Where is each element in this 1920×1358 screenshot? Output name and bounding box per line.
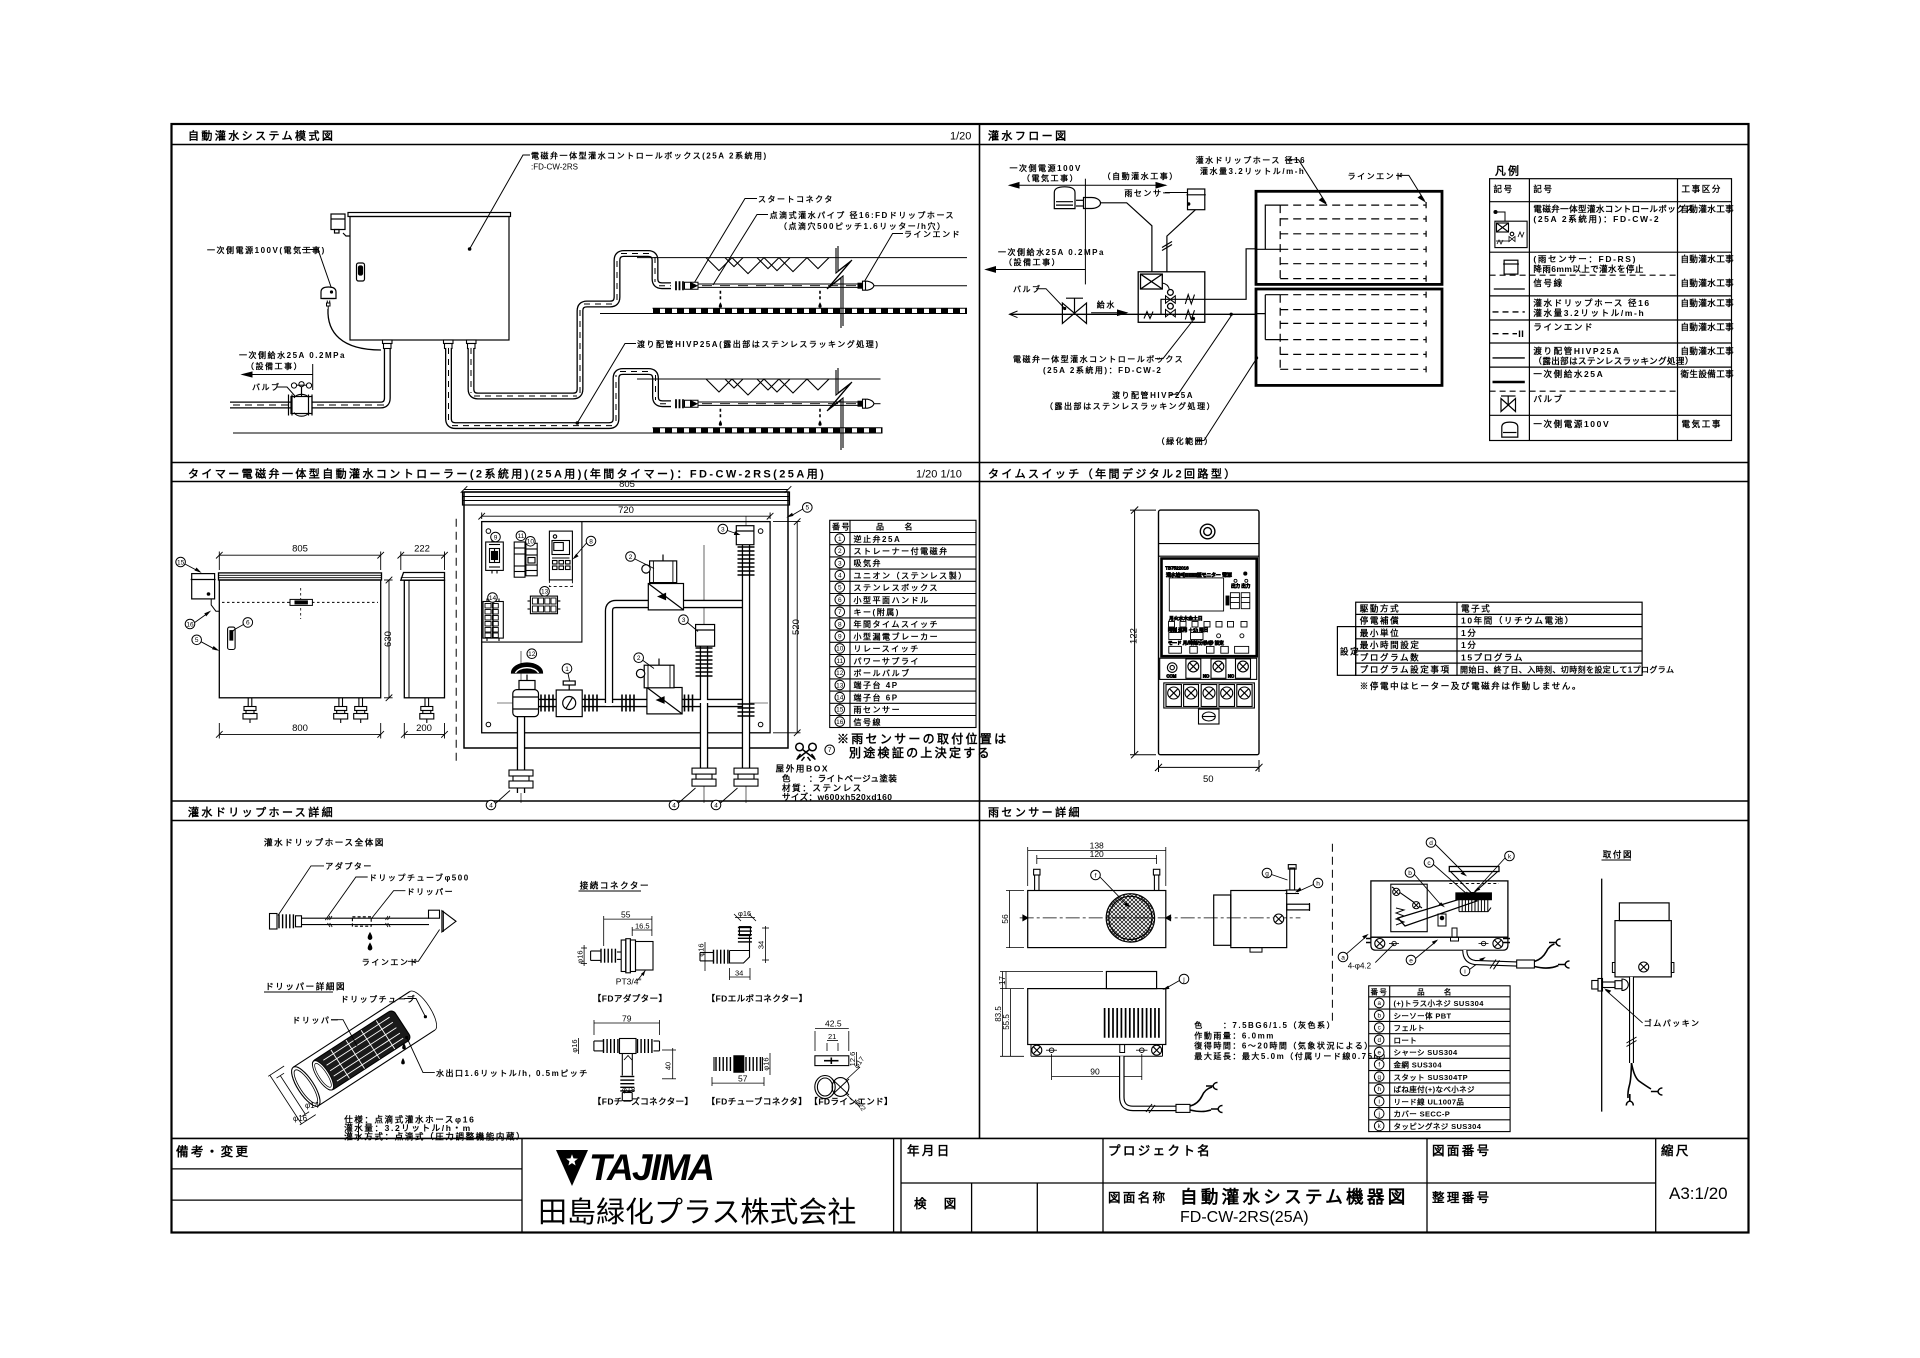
dims front: [216, 552, 393, 739]
svg-text:12: 12: [528, 651, 536, 658]
terminal row 1: [1160, 658, 1257, 679]
breaker (9): [486, 539, 504, 574]
zone 1 planting area: [637, 257, 967, 259]
svg-text:i: i: [1379, 1099, 1380, 1106]
svg-text:電磁弁一体型灌水コントロールボックス(25A 2系統用): 電磁弁一体型灌水コントロールボックス(25A 2系統用): [531, 151, 768, 161]
parts table: [1369, 986, 1510, 1132]
svg-text:122: 122: [1129, 628, 1140, 644]
thin centerlines: [497, 517, 768, 804]
signal line from plug to control box: [1101, 203, 1152, 272]
svg-text:800: 800: [292, 723, 308, 734]
svg-text:7: 7: [828, 747, 832, 754]
svg-text:灌水量3.2リットル/m-h: 灌水量3.2リットル/m-h: [1533, 308, 1645, 318]
svg-text:ラインエンド: ラインエンド: [362, 958, 419, 967]
row8 valve: [1501, 399, 1516, 412]
svg-text:給水: 給水: [1097, 300, 1116, 310]
two solenoid units: [1168, 290, 1174, 296]
svg-text:屋外用BOX: 屋外用BOX: [776, 764, 830, 774]
svg-text:1: 1: [565, 666, 569, 673]
svg-text:別途検証の上決定する: 別途検証の上決定する: [848, 745, 992, 760]
svg-text:40: 40: [664, 1062, 673, 1070]
svg-text:【FDチーズコネクター】: 【FDチーズコネクター】: [593, 1097, 694, 1107]
svg-text:(25A 2系統用)：FD-CW-2: (25A 2系統用)：FD-CW-2: [1533, 214, 1660, 224]
cable bottom view: [1122, 1056, 1176, 1108]
svg-text:品 名: 品 名: [876, 522, 914, 532]
svg-text:復得時間：6～20時間（気象状況による）: 復得時間：6～20時間（気象状況による）: [1193, 1041, 1374, 1051]
base plate: [1371, 937, 1508, 950]
svg-text:b: b: [1377, 1012, 1381, 1019]
svg-text:16: 16: [186, 621, 194, 628]
svg-text:10: 10: [527, 539, 535, 546]
svg-text:電気工事: 電気工事: [1682, 419, 1722, 429]
svg-text:7: 7: [838, 609, 842, 616]
svg-text:200: 200: [416, 723, 432, 734]
svg-text:13: 13: [836, 682, 844, 689]
svg-text:一次側電源100V: 一次側電源100V: [1010, 163, 1082, 173]
pivot: [1438, 914, 1446, 926]
row6 pipe line: [1493, 357, 1525, 359]
svg-text:（露出部はステンレスラッキング処理）: （露出部はステンレスラッキング処理）: [1045, 401, 1216, 411]
row2 rain sensor: [1504, 260, 1518, 274]
svg-text:g: g: [1377, 1074, 1381, 1081]
balloons piping: [486, 524, 740, 810]
line end: [429, 910, 440, 918]
drawing number column: [1655, 1138, 1657, 1232]
svg-text:【FDエルボコネクター】: 【FDエルボコネクター】: [707, 994, 808, 1004]
svg-text:灌水量3.2リットル/m-h: 灌水量3.2リットル/m-h: [1200, 166, 1305, 176]
left edge screws: [1366, 939, 1371, 943]
svg-text:4: 4: [838, 573, 842, 580]
svg-text:ゴムパッキン: ゴムパッキン: [1644, 1018, 1701, 1028]
svg-text:a: a: [1341, 954, 1345, 961]
svg-text:ドリップチューブ: ドリップチューブ: [341, 994, 417, 1004]
cable from base: [1465, 950, 1517, 964]
svg-text:小型平面ハンドル: 小型平面ハンドル: [853, 595, 930, 605]
svg-text:灌水ドリップホース 径16: 灌水ドリップホース 径16: [1533, 298, 1650, 308]
dims: [603, 916, 605, 946]
svg-text:e: e: [1377, 1049, 1381, 1056]
svg-text:金網 SUS304: 金網 SUS304: [1393, 1060, 1443, 1070]
device outline: [1159, 510, 1260, 755]
svg-text:信号線: 信号線: [854, 717, 883, 727]
zone 2 planting area: [637, 378, 881, 380]
svg-text:タイムスイッチ（年間デジタル2回路型）: タイムスイッチ（年間デジタル2回路型）: [988, 467, 1238, 481]
svg-text:渡り配管HIVP25A(露出部はステンレスラッキング処理): 渡り配管HIVP25A(露出部はステンレスラッキング処理): [637, 339, 880, 349]
internal branch: [1161, 249, 1256, 314]
supply pipe with valve: [230, 344, 387, 416]
panel divider vertical: [979, 124, 981, 1138]
dims: [1130, 507, 1263, 773]
svg-text:灌水ドリップホース詳細: 灌水ドリップホース詳細: [188, 805, 335, 819]
svg-text:42.5: 42.5: [825, 1019, 842, 1029]
svg-text:設定: 設定: [1340, 647, 1360, 657]
svg-text:6: 6: [246, 620, 250, 627]
svg-text:サイズ：w600xh520xd160: サイズ：w600xh520xd160: [782, 792, 892, 802]
main valve bowtie: [1062, 298, 1086, 323]
rain sensor on box: [191, 574, 220, 612]
svg-text:805: 805: [292, 544, 308, 555]
solenoid upper (2): [642, 555, 684, 610]
svg-text:接続コネクター: 接続コネクター: [580, 881, 650, 891]
hose overall: [270, 910, 457, 950]
felt: [1456, 893, 1491, 900]
svg-text:バルブ: バルブ: [252, 382, 281, 392]
svg-text:50: 50: [1203, 774, 1214, 785]
svg-text:凡例: 凡例: [1495, 164, 1521, 178]
door handle front: [228, 627, 236, 649]
svg-text:d: d: [1377, 1037, 1381, 1044]
svg-text:17: 17: [998, 976, 1007, 985]
svg-text:14: 14: [836, 695, 844, 702]
svg-text:(+)トラス小ネジ SUS304: (+)トラス小ネジ SUS304: [1394, 998, 1485, 1008]
svg-text:自動灌水工事: 自動灌水工事: [1681, 346, 1735, 356]
svg-text:渡り配管HIVP25A: 渡り配管HIVP25A: [1533, 346, 1620, 356]
FD tee: [579, 1020, 677, 1101]
outer stainless box: [463, 492, 790, 748]
svg-text:吸気弁: 吸気弁: [854, 558, 883, 568]
svg-text:2: 2: [838, 548, 842, 555]
svg-text:222: 222: [414, 544, 430, 555]
display module: [1162, 559, 1257, 657]
svg-text:電磁弁一体型灌水コントロールボックス: 電磁弁一体型灌水コントロールボックス: [1533, 204, 1693, 214]
svg-text:10: 10: [836, 646, 844, 653]
svg-text:図面番号: 図面番号: [1432, 1143, 1492, 1158]
svg-text:灌水フロー図: 灌水フロー図: [988, 129, 1069, 143]
svg-text:自動灌水工事: 自動灌水工事: [1681, 298, 1735, 308]
spec text: [1193, 1020, 1391, 1061]
valve body: [291, 397, 312, 414]
title block top: [172, 1137, 1749, 1139]
svg-text:点滴式灌水パイプ 径16:FDドリップホース: 点滴式灌水パイプ 径16:FDドリップホース: [770, 210, 956, 220]
project column: [1426, 1138, 1428, 1232]
power cord: [328, 309, 381, 350]
check symbol bottom-left: [1144, 312, 1153, 319]
FD tube connector: [712, 1053, 770, 1086]
dashed door line + hinge: [222, 601, 378, 603]
svg-text::FD-CW-2RS: :FD-CW-2RS: [531, 163, 578, 172]
svg-text:縮尺: 縮尺: [1661, 1143, 1691, 1158]
intake valve (3) riser2: [696, 625, 715, 677]
bolts front bottom: [243, 698, 368, 723]
seesaw arm: [1398, 896, 1477, 926]
svg-text:φ16: φ16: [293, 1114, 308, 1123]
svg-text:16: 16: [836, 719, 844, 726]
riser fittings below box: [383, 340, 477, 349]
row3 signal line: [1494, 288, 1525, 290]
check valve (1): [556, 681, 582, 717]
svg-text:9: 9: [838, 634, 842, 641]
svg-text:整理番号: 整理番号: [1432, 1190, 1492, 1205]
display content: [1165, 566, 1250, 654]
svg-text:14: 14: [489, 595, 497, 602]
svg-text:c: c: [1378, 1025, 1381, 1032]
svg-text:ラインエンド: ラインエンド: [904, 230, 961, 239]
svg-text:【FDチューブコネクタ】: 【FDチューブコネクタ】: [707, 1097, 808, 1107]
svg-text:月火水木金土日: 月火水木金土日: [1169, 615, 1203, 622]
svg-text:2: 2: [637, 655, 641, 662]
svg-text:ストレーナー付電磁弁: ストレーナー付電磁弁: [854, 546, 949, 556]
zone 1 soil block line: [600, 313, 967, 315]
svg-text:作動雨量：6.0mm: 作動雨量：6.0mm: [1194, 1030, 1275, 1040]
zone1 feed pipe (riser x471): [471, 254, 671, 397]
svg-text:（緑化範囲）: （緑化範囲）: [1157, 436, 1214, 446]
svg-text:スタートコネクタ: スタートコネクタ: [758, 194, 834, 204]
ball valve (12): [512, 663, 543, 717]
svg-text:プログラム設定事項: プログラム設定事項: [1360, 665, 1451, 675]
irrigation zone rectangles: [1256, 191, 1442, 385]
solenoid lower (2): [636, 659, 682, 714]
svg-text:一次側給水25A 0.2MPa: 一次側給水25A 0.2MPa: [239, 350, 346, 360]
svg-text:（電気工事）: （電気工事）: [1022, 173, 1079, 183]
mounting bolt: [1592, 979, 1628, 992]
spec table: [1337, 602, 1642, 675]
svg-text:ドリッパー: ドリッパー: [407, 887, 455, 897]
svg-text:開始日、終了日、入時刻、切時刻を設定して1プログラム: 開始日、終了日、入時刻、切時刻を設定して1プログラム: [1460, 665, 1674, 675]
power plug unit: [321, 287, 336, 299]
svg-text:色 ：7.5BG6/1.5（灰色系）: 色 ：7.5BG6/1.5（灰色系）: [1194, 1020, 1336, 1030]
date column: [1102, 1138, 1104, 1232]
tajima cell right edge (double line): [893, 1138, 895, 1232]
svg-text:b: b: [1408, 870, 1412, 877]
intake valve (3) riser3: [736, 526, 754, 716]
mechanism screws in subbox: [1393, 888, 1400, 895]
power supply (11) and relay (10): [514, 542, 537, 577]
bottom tab: [1199, 709, 1220, 724]
control box FD-CW-2RS: [350, 217, 509, 341]
svg-text:小型漏電ブレーカー: 小型漏電ブレーカー: [853, 631, 940, 641]
svg-text:カバー SECC-P: カバー SECC-P: [1394, 1110, 1451, 1119]
svg-text:（設備工事）: （設備工事）: [246, 361, 303, 371]
svg-text:6: 6: [838, 597, 842, 604]
svg-text:最大延長：最大5.0m（付属リード線0.75m）: 最大延長：最大5.0m（付属リード線0.75m）: [1194, 1051, 1391, 1061]
outer drawing frame: [172, 124, 1749, 1233]
svg-text:21: 21: [828, 1032, 836, 1041]
svg-text:（設備工事）: （設備工事）: [1004, 257, 1061, 267]
svg-text:3: 3: [721, 526, 725, 533]
switch stacks: [1226, 593, 1250, 609]
svg-text:ドリッパー詳細図: ドリッパー詳細図: [265, 982, 346, 992]
svg-text:16.5: 16.5: [635, 922, 650, 931]
svg-text:2: 2: [629, 554, 633, 561]
svg-text:j: j: [1182, 976, 1184, 983]
terminal 4P (13): [528, 596, 561, 614]
row5 line end: [1493, 333, 1518, 335]
svg-text:57: 57: [738, 1074, 748, 1084]
top bolt: [1286, 865, 1300, 894]
svg-text:記号: 記号: [1494, 184, 1514, 194]
svg-text:f: f: [1378, 1062, 1380, 1069]
parts table: [830, 520, 976, 727]
terminal row 2: [1164, 683, 1255, 708]
svg-text:※停電中はヒーター及び電磁弁は作動しません。: ※停電中はヒーター及び電磁弁は作動しません。: [1360, 681, 1582, 691]
row4 drip hose dashed: [1493, 311, 1525, 313]
svg-text:（自動灌水工事）: （自動灌水工事）: [1103, 171, 1179, 181]
svg-text:φ16: φ16: [576, 950, 585, 963]
svg-text:15: 15: [836, 707, 844, 714]
svg-text:i: i: [1464, 968, 1465, 975]
svg-text:12: 12: [836, 670, 844, 677]
svg-text:検 図: 検 図: [914, 1196, 959, 1211]
key icon (7): [796, 743, 817, 761]
svg-text:(25A 2系統用)：FD-CW-2: (25A 2系統用)：FD-CW-2: [1043, 365, 1162, 375]
strainers: [1185, 295, 1194, 304]
svg-text:10年間（リチウム電池）: 10年間（リチウム電池）: [1461, 616, 1575, 626]
svg-text:雨センサー詳細: 雨センサー詳細: [988, 805, 1082, 819]
zone2 feed pipe (riser x448.5): [449, 348, 672, 426]
svg-text:3: 3: [682, 617, 686, 624]
svg-text:停電補償: 停電補償: [1360, 616, 1400, 626]
svg-text:一次側給水25A 0.2MPa: 一次側給水25A 0.2MPa: [998, 247, 1105, 257]
door handle: [357, 263, 365, 281]
svg-text:ステンレスボックス: ステンレスボックス: [854, 583, 939, 593]
svg-text:プロジェクト名: プロジェクト名: [1108, 1143, 1212, 1158]
dims bottom view: [1000, 972, 1142, 1081]
svg-text:端子台 6P: 端子台 6P: [854, 692, 899, 702]
svg-text:1/20: 1/20: [950, 131, 971, 143]
svg-text:1分: 1分: [1461, 628, 1477, 638]
svg-text:a: a: [1377, 1000, 1381, 1007]
svg-text:年間タイムスイッチ: 年間タイムスイッチ: [854, 619, 940, 629]
dim 720: [478, 513, 773, 520]
legend table: [1490, 164, 1735, 441]
svg-text:34: 34: [735, 969, 743, 978]
svg-text:8: 8: [589, 538, 593, 545]
svg-text:信号線: 信号線: [1533, 278, 1563, 288]
main water line: [1010, 311, 1257, 318]
svg-text:自動灌水システム機器図: 自動灌水システム機器図: [1180, 1187, 1409, 1207]
svg-text:(雨センサー：FD-RS): (雨センサー：FD-RS): [1533, 254, 1637, 264]
funnel: [1449, 867, 1499, 872]
svg-text:8: 8: [838, 621, 842, 628]
svg-text:バルブ: バルブ: [1533, 394, 1563, 404]
svg-text:タッピングネジ SUS304: タッピングネジ SUS304: [1394, 1121, 1482, 1131]
svg-text:一次側電源100V: 一次側電源100V: [1533, 419, 1610, 429]
FD line end: [815, 1029, 860, 1108]
svg-text:番号: 番号: [1370, 987, 1389, 997]
svg-text:φ16: φ16: [762, 1057, 771, 1070]
svg-text:出力 出力: 出力 出力: [1231, 583, 1251, 590]
svg-text:ボールバルブ: ボールバルブ: [854, 668, 911, 678]
svg-text:灌水方式：点滴式（圧力調整機能内蔵）: 灌水方式：点滴式（圧力調整機能内蔵）: [344, 1132, 526, 1142]
svg-text:4: 4: [489, 802, 493, 809]
svg-text:h: h: [1316, 880, 1320, 887]
spring left: [1396, 908, 1404, 925]
svg-text:5: 5: [805, 505, 809, 512]
svg-text:120: 120: [1090, 849, 1104, 859]
svg-text:ラインエンド: ラインエンド: [1533, 322, 1594, 332]
svg-text:56: 56: [1000, 914, 1010, 924]
svg-text:（露出部はステンレスラッキング処理）: （露出部はステンレスラッキング処理）: [1533, 356, 1693, 366]
FD elbow: [700, 914, 769, 980]
svg-text:5: 5: [838, 585, 842, 592]
svg-text:降雨6mm以上で灌水を停止: 降雨6mm以上で灌水を停止: [1533, 264, 1643, 274]
pipes: [521, 529, 746, 793]
svg-text:灌水ドリップホース全体図: 灌水ドリップホース全体図: [264, 838, 385, 848]
svg-text:【FDアダプター】: 【FDアダプター】: [593, 994, 668, 1004]
svg-text:キー(附属): キー(附属): [854, 607, 900, 617]
svg-text:11: 11: [518, 533, 525, 540]
phi dims at left end: [277, 1073, 310, 1116]
svg-text:シャーシ SUS304: シャーシ SUS304: [1394, 1048, 1458, 1057]
svg-text:アダプター: アダプター: [325, 861, 373, 871]
inner dripper: [311, 1009, 412, 1092]
svg-text:【FDラインエンド】: 【FDラインエンド】: [809, 1097, 893, 1107]
row9 power: [1502, 422, 1518, 437]
panel titles: [188, 129, 1238, 820]
svg-text:自動灌水工事: 自動灌水工事: [1681, 278, 1735, 288]
svg-text:スタット SUS304TP: スタット SUS304TP: [1394, 1072, 1468, 1082]
panel 6 right: mechanism + parts table + mounting: [1338, 838, 1700, 1132]
separator dashed: [455, 519, 457, 762]
svg-text:モード 月/時刻/分秒/秒 設定: モード 月/時刻/分秒/秒 設定: [1168, 640, 1224, 647]
svg-text:805: 805: [619, 479, 635, 490]
cable mounting view: [1629, 977, 1634, 1063]
svg-text:f: f: [1095, 872, 1097, 879]
svg-text:1分: 1分: [1461, 640, 1477, 650]
svg-text:34: 34: [757, 941, 766, 949]
svg-text:4: 4: [714, 802, 718, 809]
svg-text:色 ：ライトベージュ塗装: 色 ：ライトベージュ塗装: [782, 774, 897, 784]
panel 1 labels: [207, 151, 961, 425]
svg-text:55.5: 55.5: [1002, 1014, 1011, 1030]
dashed separator: [1331, 844, 1333, 1025]
svg-text:パワーサプライ: パワーサプライ: [854, 656, 920, 666]
vent box top-left: [331, 214, 345, 230]
svg-text:ユニオン（ステンレス製）: ユニオン（ステンレス製）: [854, 570, 968, 580]
svg-text:11: 11: [836, 658, 843, 665]
svg-text:最小時間設定: 最小時間設定: [1360, 640, 1421, 650]
dims: [734, 914, 741, 921]
svg-text:13: 13: [541, 589, 549, 596]
balloon 5 top right: [786, 503, 812, 518]
svg-text:TB7522016: TB7522016: [1165, 566, 1189, 571]
vent slots: [1105, 1008, 1159, 1038]
plug: [1084, 198, 1101, 209]
svg-text:プログラム数: プログラム数: [1360, 652, 1420, 662]
svg-text:図面名称: 図面名称: [1108, 1190, 1168, 1205]
svg-text:630: 630: [383, 631, 394, 647]
svg-text:520: 520: [791, 619, 802, 635]
control box: [1138, 249, 1256, 322]
svg-text:一次側給水25A: 一次側給水25A: [1533, 369, 1604, 379]
svg-text:ロート: ロート: [1394, 1036, 1418, 1045]
svg-text:※雨センサーの取付位置は: ※雨センサーの取付位置は: [837, 731, 1008, 746]
svg-text:工事区分: 工事区分: [1682, 184, 1722, 194]
bottom unions (4): [509, 770, 533, 788]
handwheel: [301, 387, 303, 396]
svg-text:自動灌水工事: 自動灌水工事: [1681, 204, 1735, 214]
svg-text:4-φ4.2: 4-φ4.2: [1348, 962, 1372, 971]
svg-text:φ16: φ16: [570, 1039, 579, 1052]
annual time switch (8): [549, 531, 572, 587]
svg-text:NO: NO: [1203, 674, 1210, 679]
svg-text:15: 15: [177, 559, 185, 566]
svg-text:シーソー体 PBT: シーソー体 PBT: [1394, 1010, 1452, 1020]
balloons front: [176, 557, 253, 651]
svg-text:端子台 4P: 端子台 4P: [854, 680, 899, 690]
zone 2 soil block line: [233, 432, 883, 434]
svg-text:1/20 1/10: 1/20 1/10: [916, 469, 962, 481]
svg-text:衛生設備工事: 衛生設備工事: [1680, 369, 1735, 379]
svg-text:55: 55: [621, 910, 631, 920]
svg-text:TAJIMA: TAJIMA: [589, 1147, 713, 1188]
svg-text:15プログラム: 15プログラム: [1461, 652, 1524, 662]
svg-text:j: j: [1378, 1111, 1380, 1118]
dim 520: [773, 518, 801, 736]
svg-text:d: d: [1429, 840, 1433, 847]
mesh comb: [1459, 900, 1488, 912]
svg-text:取付図: 取付図: [1603, 850, 1633, 860]
